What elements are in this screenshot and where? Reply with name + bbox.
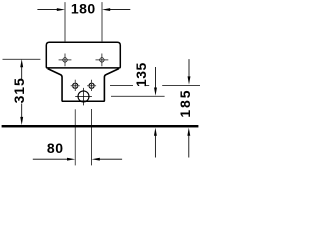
dim 80 extension line left (from lower hole) [74, 109, 76, 165]
dim 80 dimension line right with arrow [92, 158, 123, 161]
dim 80 extension line right (from lower hole) [91, 109, 93, 165]
dim 180 dimension line right with arrow [102, 8, 130, 11]
dim 180 extension line right [101, 2, 103, 41]
drain outlet circle with crosshair [75, 88, 92, 106]
dim 315 dimension line lower segment with down arrow [20, 104, 23, 126]
lower right extension line (drain height, for dim 135) [111, 95, 165, 97]
dim 180 dimension line left with arrow [37, 8, 65, 11]
rim fixing hole left (crosshair) [59, 54, 72, 67]
upper right extension line (fixing holes height, for dim 185) [110, 84, 200, 86]
svg-text:315: 315 [11, 77, 27, 103]
dim 185 dimension line upper segment with down arrow [188, 59, 191, 85]
svg-text:135: 135 [133, 62, 149, 87]
svg-text:80: 80 [47, 140, 64, 156]
dim 80 dimension line left with arrow [33, 158, 75, 161]
svg-text:180: 180 [71, 0, 96, 16]
dim 315 extension line (top, at rim holes height) [3, 58, 41, 60]
dim 135 dimension line upper segment with down arrow [154, 67, 157, 96]
rim fixing hole right (crosshair) [96, 54, 109, 67]
dim 135 dimension line lower segment with up arrow [154, 128, 157, 158]
dim 180 extension line left [64, 2, 66, 41]
svg-text:185: 185 [177, 89, 193, 118]
dim 185 dimension line lower segment with up arrow [187, 128, 190, 158]
floor line [2, 125, 199, 127]
lower fixing hole right (thick target) [87, 80, 96, 91]
dim 315 dimension line upper segment with up arrow [20, 59, 23, 80]
lower fixing hole left (thick target) [71, 80, 80, 91]
bidet rim outline [46, 42, 120, 68]
bidet lower body outline [48, 69, 119, 102]
